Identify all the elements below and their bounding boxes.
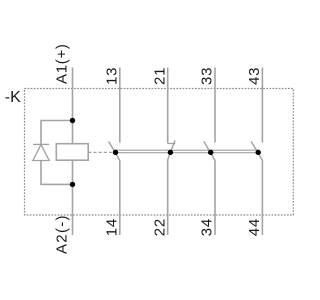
label 13 <box>103 67 120 85</box>
mechanical link double line upper <box>116 149 259 151</box>
contact 21-22 upper wire <box>167 68 169 144</box>
contact 33-34 link dot <box>208 150 213 155</box>
label 44 <box>246 218 263 236</box>
svg-text:A1(+): A1(+) <box>54 43 71 84</box>
contact 13-14 lower wire <box>119 160 121 235</box>
label 33 <box>199 67 216 85</box>
contact 13-14 upper wire <box>119 68 121 143</box>
svg-text:14: 14 <box>103 218 120 236</box>
mechanical link double line lower <box>116 152 259 154</box>
contact 21-22 NC seat bar <box>168 143 176 145</box>
contact 43-44 upper wire <box>261 68 263 143</box>
svg-text:-K: -K <box>5 89 21 106</box>
label 43 <box>246 67 263 85</box>
label 22 <box>151 218 168 236</box>
svg-text:34: 34 <box>199 218 216 236</box>
wire diode branch to bottom junction <box>41 161 73 185</box>
diode V1 (suppressor diode, cathode bar) <box>33 143 49 145</box>
dashed enclosure box -K <box>25 89 294 216</box>
contact 13-14 NO lever <box>109 141 120 160</box>
contact 21-22 link dot <box>168 150 173 155</box>
contact 13-14 link dot <box>113 150 118 155</box>
diode V1 triangle <box>33 145 49 161</box>
svg-text:13: 13 <box>103 67 120 85</box>
contact 21-22 lower wire <box>167 160 169 236</box>
svg-text:43: 43 <box>246 67 263 85</box>
wire A1 vertical to coil <box>72 68 74 144</box>
contact 43-44 lower wire <box>261 160 263 235</box>
label A1(+) <box>54 43 71 84</box>
contact 33-34 upper wire <box>214 68 216 143</box>
label 14 <box>103 218 120 236</box>
svg-text:21: 21 <box>151 67 168 85</box>
svg-text:44: 44 <box>246 218 263 236</box>
label 34 <box>199 218 216 236</box>
label A2(-) <box>54 214 71 254</box>
mechanical link dashed (coil to contact 1) <box>88 151 113 153</box>
svg-text:33: 33 <box>199 67 216 85</box>
node junction top (A1 side) <box>70 118 75 123</box>
label 21 <box>151 67 168 85</box>
contact 43-44 link dot <box>256 150 261 155</box>
label -K <box>5 89 21 106</box>
node junction bottom (A2 side) <box>70 182 75 187</box>
contact 33-34 lower wire <box>214 160 216 235</box>
contact 33-34 NO lever <box>204 141 215 160</box>
contact 43-44 NO lever <box>251 141 262 160</box>
svg-text:A2(-): A2(-) <box>54 214 71 254</box>
svg-text:22: 22 <box>151 218 168 236</box>
wire coil to A2 vertical <box>72 160 74 235</box>
wire top junction to diode branch <box>41 121 73 145</box>
coil K (relay coil rectangle) <box>56 144 88 161</box>
contact 21-22 NC lever <box>168 140 175 159</box>
